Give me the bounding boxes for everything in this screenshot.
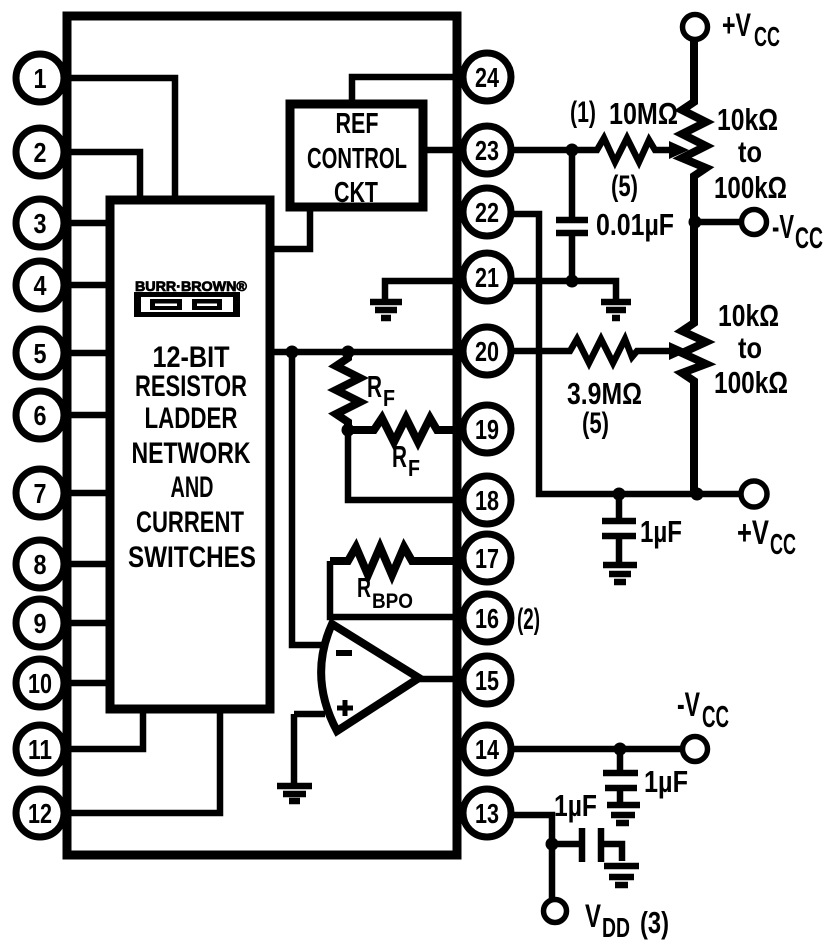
svg-text:1µF: 1µF (640, 514, 682, 549)
svg-text:1µF: 1µF (554, 788, 597, 822)
svg-text:100kΩ: 100kΩ (714, 365, 788, 399)
svg-text:17: 17 (475, 543, 499, 574)
svg-text:R: R (367, 369, 382, 404)
svg-text:10kΩ: 10kΩ (718, 298, 779, 332)
svg-text:R: R (357, 573, 371, 604)
svg-text:7: 7 (34, 479, 47, 509)
svg-text:0.01µF: 0.01µF (596, 207, 674, 241)
svg-text:1µF: 1µF (644, 763, 688, 798)
svg-text:10MΩ: 10MΩ (609, 95, 678, 130)
svg-text:11: 11 (28, 735, 52, 766)
svg-text:(2): (2) (517, 603, 540, 637)
svg-text:LADDER: LADDER (145, 401, 238, 435)
svg-text:5: 5 (34, 339, 47, 369)
svg-text:SWITCHES: SWITCHES (128, 540, 256, 574)
svg-text:(1): (1) (570, 94, 596, 129)
svg-text:CC: CC (770, 529, 796, 561)
svg-text:3: 3 (34, 209, 47, 239)
svg-text:R: R (392, 439, 407, 474)
svg-text:REF: REF (336, 108, 379, 140)
svg-text:14: 14 (475, 734, 499, 765)
svg-text:CC: CC (795, 222, 823, 255)
svg-text:16: 16 (475, 603, 499, 634)
svg-text:4: 4 (34, 271, 48, 301)
svg-text:F: F (383, 386, 395, 412)
svg-text:CKT: CKT (334, 177, 378, 209)
svg-text:F: F (408, 456, 420, 482)
svg-text:10kΩ: 10kΩ (717, 102, 778, 136)
svg-text:+V: +V (722, 7, 751, 43)
svg-text:12: 12 (28, 798, 52, 829)
svg-text:NETWORK: NETWORK (132, 436, 252, 470)
svg-text:(5): (5) (582, 406, 609, 440)
svg-text:1: 1 (34, 64, 47, 94)
svg-text:BURR·BROWN®: BURR·BROWN® (135, 278, 248, 294)
svg-text:(3): (3) (640, 905, 669, 940)
svg-text:(5): (5) (611, 169, 638, 203)
svg-text:8: 8 (34, 550, 47, 580)
svg-text:13: 13 (475, 798, 499, 829)
svg-text:18: 18 (475, 485, 499, 516)
svg-text:V: V (585, 898, 601, 934)
svg-text:to: to (738, 331, 762, 364)
svg-text:20: 20 (475, 336, 499, 367)
svg-text:9: 9 (34, 609, 47, 639)
svg-text:CC: CC (702, 700, 729, 734)
svg-text:CC: CC (754, 21, 780, 52)
svg-text:+V: +V (737, 515, 769, 552)
svg-text:10: 10 (28, 668, 52, 699)
svg-text:2: 2 (34, 138, 47, 168)
svg-text:6: 6 (34, 401, 47, 431)
svg-text:-V: -V (772, 209, 794, 245)
svg-text:24: 24 (475, 62, 499, 93)
svg-text:to: to (738, 135, 762, 168)
svg-text:22: 22 (475, 197, 499, 228)
svg-text:RESISTOR: RESISTOR (135, 369, 247, 403)
svg-text:19: 19 (475, 414, 499, 445)
svg-text:-V: -V (677, 687, 701, 724)
svg-text:23: 23 (475, 135, 499, 166)
svg-text:CONTROL: CONTROL (307, 142, 407, 174)
svg-text:BPO: BPO (372, 590, 413, 613)
svg-text:21: 21 (475, 262, 499, 293)
svg-text:DD: DD (602, 913, 630, 944)
svg-text:100kΩ: 100kΩ (714, 170, 787, 205)
svg-text:15: 15 (475, 665, 499, 696)
svg-text:AND: AND (171, 471, 214, 504)
svg-text:CURRENT: CURRENT (136, 505, 244, 539)
